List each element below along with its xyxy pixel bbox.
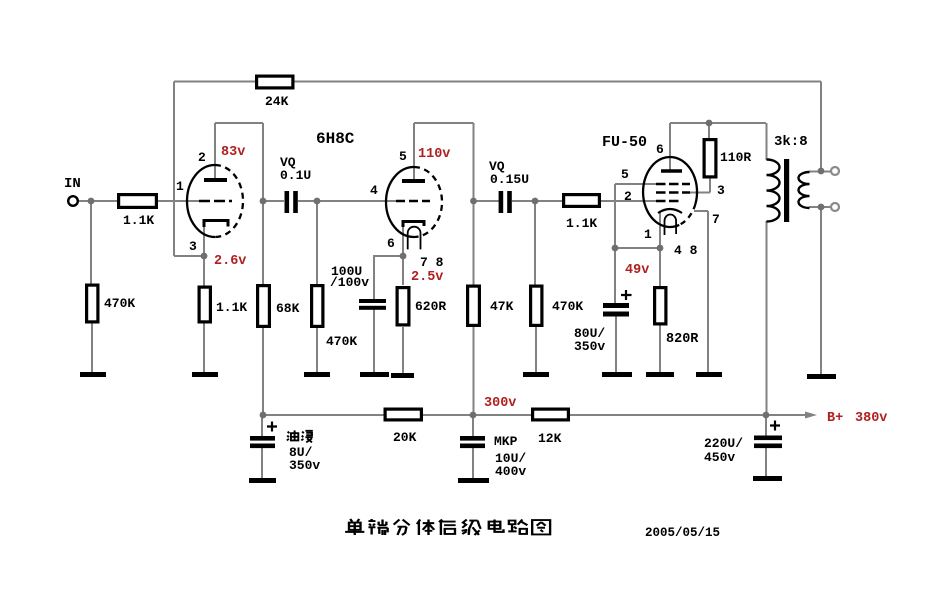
output terminal bottom	[831, 203, 839, 211]
B+ arrow	[805, 412, 817, 419]
label 80U/	[574, 326, 605, 341]
capacitor C8 plus sign	[770, 421, 780, 431]
label pin 1 V3	[644, 227, 652, 242]
label MKP	[494, 434, 518, 449]
ground C6	[249, 478, 276, 483]
resistor 1.1K V1 cathode	[199, 287, 210, 322]
wire cathode to C3	[374, 255, 403, 299]
wire V3 plate top run	[670, 122, 766, 124]
wire input shunt	[90, 201, 92, 285]
wire R10 to V3 grid pin 2	[601, 200, 656, 202]
tube V3 FU-50	[643, 157, 697, 235]
svg-text:3: 3	[189, 239, 197, 254]
wire V2 plate drop to node C	[473, 123, 475, 285]
svg-text:FU-50: FU-50	[602, 134, 647, 151]
svg-text:4 8: 4 8	[674, 243, 698, 258]
wire secondary top lead	[809, 171, 831, 173]
wire R2 to ground	[91, 323, 93, 373]
wire V1 plate riser	[214, 123, 216, 178]
resistor 24K feedback	[257, 76, 293, 88]
resistor 470K input	[87, 285, 98, 322]
label 0.1U	[280, 168, 311, 183]
capacitor C5 80U/350v	[603, 303, 629, 317]
svg-text:IN: IN	[64, 176, 81, 192]
resistor 68K	[258, 286, 270, 327]
svg-text:MKP: MKP	[494, 434, 518, 449]
node B V2 grid junction	[314, 198, 321, 205]
label B+ 380v	[827, 411, 887, 426]
label pin 6 V3	[656, 142, 664, 157]
ground R2	[80, 372, 106, 377]
node secondary top junction	[818, 168, 825, 175]
label pin 4 V2	[370, 183, 378, 198]
label 470K input	[104, 296, 135, 311]
svg-text:220U/: 220U/	[704, 436, 743, 451]
label 2.5v	[411, 270, 443, 285]
wire B+ rail left	[262, 414, 385, 416]
label pin 2 V3	[624, 189, 632, 204]
ground C3	[360, 372, 389, 377]
ground R11	[646, 372, 674, 377]
label 470K V3 grid	[552, 299, 583, 314]
capacitor C5 plus sign	[621, 290, 632, 300]
input terminal	[68, 196, 78, 206]
resistor 20K	[385, 409, 421, 420]
node input junction	[88, 198, 95, 205]
wire NFB to V1 cathode	[174, 255, 204, 257]
svg-text:620R: 620R	[415, 299, 446, 314]
label 0.15U	[490, 172, 529, 187]
label pin 3 V1	[189, 239, 197, 254]
label pins 7 8 V2	[420, 255, 444, 270]
label 620R	[415, 299, 446, 314]
label 110v	[418, 147, 450, 162]
wire C7 stub	[472, 415, 474, 478]
svg-text:6: 6	[387, 236, 395, 251]
resistor 820R	[655, 288, 666, 324]
ground C5	[602, 372, 632, 377]
label oil-immersed (Chinese)	[287, 430, 313, 442]
wire R4 to B+ rail	[262, 328, 264, 415]
wire 110R stub	[708, 123, 710, 139]
node A V1 plate junction	[260, 198, 267, 205]
svg-text:2: 2	[624, 189, 632, 204]
svg-text:7 8: 7 8	[420, 255, 444, 270]
wire R11 to ground	[659, 325, 661, 373]
wire C6 stub	[261, 415, 263, 478]
node V2 cathode junction	[400, 253, 407, 260]
wire pin 7 to ground	[707, 211, 709, 373]
wire node D to R10	[535, 200, 563, 202]
resistor 470K V3 grid	[531, 286, 542, 325]
label 100U	[331, 264, 362, 279]
resistor 12K	[533, 409, 569, 420]
tube V2 6H8C section 2	[386, 167, 442, 249]
resistor 1.1K V3 grid stopper	[564, 195, 600, 207]
wire C1 to node B	[298, 200, 317, 202]
label 110R	[720, 150, 751, 165]
label 3k:8	[774, 134, 808, 150]
wire NFB left vertical	[173, 82, 175, 257]
label VQ	[280, 155, 296, 170]
resistor 1.1K input	[119, 195, 157, 208]
capacitor C7 MKP 10U/400v	[460, 436, 485, 448]
ground C8	[753, 476, 782, 481]
svg-text:450v: 450v	[704, 450, 735, 465]
svg-text:20K: 20K	[393, 430, 417, 445]
svg-text:68K: 68K	[276, 301, 300, 316]
label date 2005/05/15	[645, 526, 720, 540]
svg-text:110R: 110R	[720, 150, 751, 165]
ground R3	[192, 372, 218, 377]
label 12K	[538, 431, 562, 446]
label VQ 2	[489, 159, 505, 174]
label 10U/	[495, 451, 526, 466]
label 1.1K input	[123, 213, 154, 228]
label FU-50	[602, 134, 647, 151]
svg-text:470K: 470K	[552, 299, 583, 314]
label 47K	[490, 299, 514, 314]
svg-text:B+: B+	[827, 411, 843, 426]
label 8U/	[289, 445, 313, 460]
wire C8 stub	[765, 415, 767, 476]
svg-text:0.15U: 0.15U	[490, 172, 529, 187]
label 820R	[666, 332, 699, 347]
svg-text:24K: 24K	[265, 94, 289, 109]
label pin 2 V1	[198, 150, 206, 165]
node B+ rail 300v junction	[470, 412, 477, 419]
wire NFB right vertical	[820, 82, 822, 172]
svg-text:1.1K: 1.1K	[216, 300, 247, 315]
node D V3 grid junction	[532, 198, 539, 205]
output terminal top	[831, 167, 839, 175]
resistor 110R	[704, 140, 716, 177]
svg-text:6: 6	[656, 142, 664, 157]
svg-text:1: 1	[176, 179, 184, 194]
label pin 3 V3	[717, 183, 725, 198]
wire R9 to ground	[535, 327, 537, 373]
label 300v	[484, 396, 516, 411]
svg-text:3k:8: 3k:8	[774, 134, 808, 150]
label pin 6 V2	[387, 236, 395, 251]
resistor 47K	[468, 286, 480, 325]
title (Chinese)	[345, 519, 550, 535]
svg-text:47K: 47K	[490, 299, 514, 314]
label 68K	[276, 301, 300, 316]
transformer T1 core	[784, 159, 789, 222]
label 220U/	[704, 436, 743, 451]
node V1 cathode junction	[201, 253, 208, 260]
label 450v	[704, 450, 735, 465]
svg-text:/100v: /100v	[330, 275, 369, 290]
wire R5 to ground	[316, 328, 318, 373]
label IN	[64, 176, 81, 192]
transformer T1 primary winding	[767, 160, 780, 222]
svg-text:110v: 110v	[418, 147, 450, 162]
svg-text:820R: 820R	[666, 332, 699, 347]
svg-text:2.6v: 2.6v	[214, 254, 246, 269]
label 1.1K grid stopper	[566, 216, 597, 231]
label 1.1K cathode	[216, 300, 247, 315]
ground R9	[523, 372, 549, 377]
wire node C to C4	[474, 200, 500, 202]
wire B+ rail right	[569, 414, 807, 416]
label pin 5 V2	[399, 149, 407, 164]
svg-text:6H8C: 6H8C	[316, 130, 355, 148]
wire V3 cathode drop	[659, 212, 661, 287]
wire V1 cathode drop	[203, 221, 205, 286]
wire V2 plate top run	[414, 122, 474, 124]
svg-text:350v: 350v	[574, 339, 605, 354]
wire V3 screen stub	[690, 177, 710, 193]
node B+ rail right junction	[763, 412, 770, 419]
capacitor C6 oil 8U/350v	[250, 436, 275, 448]
wire V3 plate riser	[669, 123, 671, 170]
svg-text:83v: 83v	[221, 145, 245, 160]
wire V1 plate top run	[215, 122, 263, 124]
node B+ rail left junction	[260, 412, 267, 419]
wire V2 plate riser	[413, 123, 415, 179]
transformer T1 secondary winding	[799, 172, 810, 208]
label 49v	[625, 263, 649, 278]
wire node D grid leak drop	[534, 201, 536, 285]
RESISTORS	[87, 76, 716, 420]
svg-text:300v: 300v	[484, 396, 516, 411]
node C V2 plate junction	[470, 198, 477, 205]
ground R7	[391, 373, 414, 378]
ground pin 7	[696, 372, 722, 377]
wire B+ rail middle	[422, 414, 533, 416]
svg-text:400v: 400v	[495, 464, 526, 479]
wire node B to V2 grid	[317, 200, 396, 202]
wire V3 pin 5	[615, 183, 656, 185]
ground C7	[458, 478, 489, 483]
resistor 470K V2 grid	[312, 286, 323, 327]
label 24K	[265, 94, 289, 109]
wire V1 plate drop to node A	[262, 123, 264, 285]
capacitor C3 100U/100v	[359, 299, 386, 310]
ground R5	[304, 372, 330, 377]
wire R7 to ground	[402, 327, 404, 373]
svg-text:0.1U: 0.1U	[280, 168, 311, 183]
label /100v	[330, 275, 369, 290]
label 20K	[393, 430, 417, 445]
wire node B grid leak drop	[316, 201, 318, 285]
capacitor C6 plus sign	[267, 422, 277, 432]
svg-text:5: 5	[399, 149, 407, 164]
node V3 cathode junction	[657, 245, 664, 252]
node secondary bottom junction	[818, 204, 825, 211]
svg-text:470K: 470K	[326, 334, 357, 349]
wire secondary bottom lead	[809, 206, 831, 208]
wire C3 to ground	[373, 309, 375, 373]
wire V3 pin 7 horizontal	[694, 210, 708, 212]
svg-text:2: 2	[198, 150, 206, 165]
svg-text:1: 1	[644, 227, 652, 242]
wire V2 cathode drop	[402, 223, 404, 285]
svg-text:3: 3	[717, 183, 725, 198]
node E 49v junction	[612, 245, 619, 252]
ground secondary	[807, 374, 836, 379]
label 470K V2 grid	[326, 334, 357, 349]
label pin 5 V3	[621, 167, 629, 182]
svg-text:4: 4	[370, 183, 378, 198]
label 400v	[495, 464, 526, 479]
wire R1 to V1 grid	[158, 200, 199, 202]
label pin 1 V1	[176, 179, 184, 194]
wire NFB top rail	[174, 81, 821, 83]
svg-text:1.1K: 1.1K	[566, 216, 597, 231]
wire node E to cathode node	[615, 247, 660, 249]
wire C4 to node D	[512, 200, 535, 202]
wire R3 to ground	[203, 323, 205, 373]
svg-text:49v: 49v	[625, 263, 649, 278]
wire node A to C1	[263, 200, 284, 202]
svg-text:5: 5	[621, 167, 629, 182]
svg-text:470K: 470K	[104, 296, 135, 311]
capacitor C8 220U/450v	[754, 436, 782, 449]
svg-text:350v: 350v	[289, 458, 320, 473]
wire secondary bottom to ground	[820, 207, 822, 374]
svg-text:7: 7	[712, 212, 720, 227]
wire input to R1	[78, 200, 117, 202]
label pin 7 V3	[712, 212, 720, 227]
capacitor C1 VQ 0.1U	[285, 191, 298, 213]
wire primary top lead	[766, 123, 768, 160]
svg-text:2005/05/15: 2005/05/15	[645, 526, 720, 540]
label 350v C6	[289, 458, 320, 473]
label 83v	[221, 145, 245, 160]
svg-text:2.5v: 2.5v	[411, 270, 443, 285]
wire C5 to ground	[615, 316, 617, 373]
node V3 plate junction	[706, 120, 713, 127]
capacitor C4 VQ 0.15U	[499, 191, 512, 213]
wire pin 5 vertical to node E	[614, 184, 616, 303]
label pins 4 8 V3	[674, 243, 698, 258]
label 2.6v	[214, 254, 246, 269]
label 350v C5	[574, 339, 605, 354]
wire primary bottom to B+ rail	[766, 221, 768, 415]
GROUND SYMBOLS	[80, 372, 836, 483]
wire R8 to B+ rail	[473, 327, 475, 415]
svg-text:380v: 380v	[855, 411, 887, 426]
resistor 620R	[397, 288, 409, 325]
tube V1 6H8C section 1	[187, 165, 243, 237]
svg-text:1.1K: 1.1K	[123, 213, 154, 228]
svg-text:12K: 12K	[538, 431, 562, 446]
label 6H8C	[316, 130, 355, 148]
